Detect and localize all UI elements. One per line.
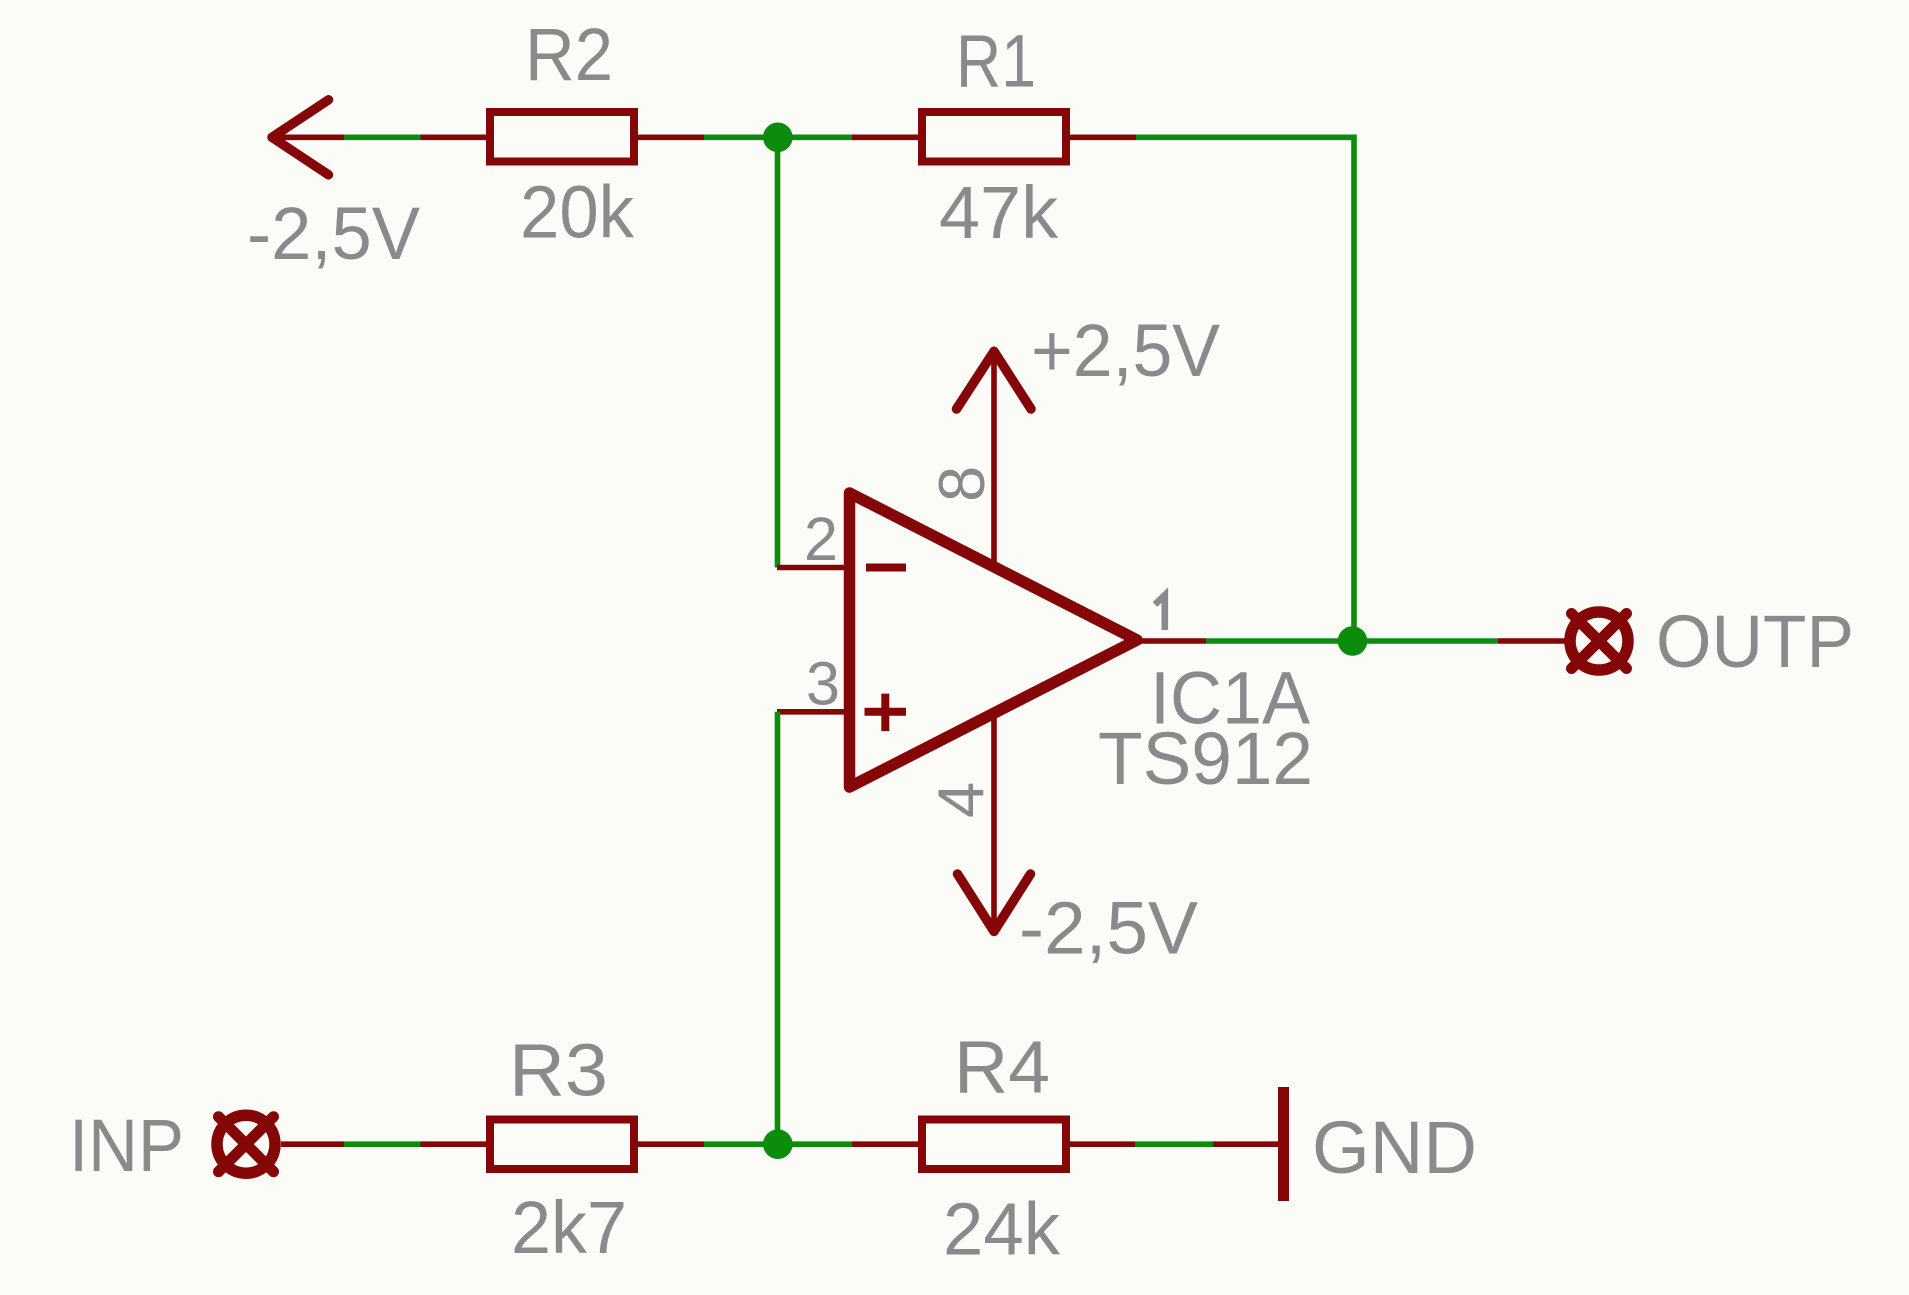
wire red lead INP xyxy=(281,1141,344,1147)
resistor R4 xyxy=(922,1120,1066,1170)
pin 1 lead from apex xyxy=(1140,638,1206,644)
op-amp plus input mark xyxy=(865,694,907,732)
output net: red lead apex, green wire, junction, red to pinhead xyxy=(1206,638,1498,644)
supply arrow -2,5V top-left xyxy=(272,100,344,175)
svg-text:8: 8 xyxy=(925,466,998,502)
svg-text:-2,5V: -2,5V xyxy=(247,192,421,275)
svg-text:OUTP: OUTP xyxy=(1656,600,1854,683)
svg-text:R1: R1 xyxy=(956,20,1036,103)
wire red lead OUTP pinhead xyxy=(1498,638,1565,644)
resistor R3 xyxy=(490,1120,634,1170)
wire red lead R3 pin1 xyxy=(421,1141,487,1147)
wire red lead R2 pin1 xyxy=(421,135,487,141)
pin 1 number xyxy=(1155,595,1165,630)
junction bottom node xyxy=(763,1129,793,1159)
junction output node xyxy=(1338,626,1368,656)
GND symbol bar xyxy=(1278,1087,1289,1201)
svg-text:INP: INP xyxy=(69,1104,184,1187)
wire net green feedback right xyxy=(1136,137,1354,641)
wire green vertical to pin 2 xyxy=(775,137,781,567)
wire net green bottom right xyxy=(1135,1141,1213,1147)
wire net green bottom-left xyxy=(344,1141,421,1147)
wire red lead R4 pin2 xyxy=(1070,1141,1135,1147)
junction top node xyxy=(763,123,793,153)
svg-text:2: 2 xyxy=(804,505,838,573)
svg-text:+2,5V: +2,5V xyxy=(1031,309,1221,392)
wire red lead R2 pin2 xyxy=(638,135,704,141)
wire net N$2 top-left green xyxy=(344,135,421,141)
wire red lead R3 pin2 xyxy=(638,1141,704,1147)
svg-text:TS912: TS912 xyxy=(1098,717,1313,800)
svg-text:4: 4 xyxy=(924,782,997,818)
svg-text:24k: 24k xyxy=(943,1187,1061,1270)
resistor R2 xyxy=(490,112,634,162)
wire green vertical to pin 3 xyxy=(775,712,781,1144)
pin 4 lead and -2,5V supply arrow xyxy=(958,714,1031,931)
svg-text:R2: R2 xyxy=(525,13,613,96)
svg-text:R3: R3 xyxy=(509,1028,608,1111)
svg-text:GND: GND xyxy=(1312,1106,1477,1189)
svg-text:47k: 47k xyxy=(939,171,1059,254)
wire red lead R1 pin2 xyxy=(1070,135,1136,141)
op-amp minus input mark xyxy=(866,564,906,572)
pin 8 lead and +2,5V supply arrow xyxy=(957,351,1032,563)
wire red lead R1 pin1 xyxy=(852,135,918,141)
OUTP pinhead circle-X xyxy=(1570,612,1628,670)
svg-text:R4: R4 xyxy=(954,1026,1050,1109)
resistor R1 xyxy=(922,112,1066,162)
pin 3 lead xyxy=(777,709,851,715)
svg-text:3: 3 xyxy=(806,649,840,717)
op-amp IC1A triangle xyxy=(850,493,1138,787)
wire net green bottom middle xyxy=(704,1141,852,1147)
svg-text:20k: 20k xyxy=(520,170,635,253)
INP pinhead circle-X xyxy=(217,1115,275,1173)
wire red lead GND xyxy=(1213,1141,1278,1147)
svg-text:2k7: 2k7 xyxy=(511,1186,627,1269)
pin 2 lead xyxy=(777,565,851,571)
wire net green top middle xyxy=(704,135,852,141)
svg-text:-2,5V: -2,5V xyxy=(1019,886,1199,969)
wire red lead R4 pin1 xyxy=(852,1141,918,1147)
